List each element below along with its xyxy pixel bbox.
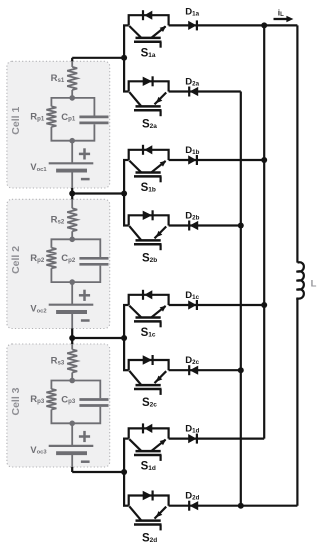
svg-text:D2c: D2c: [185, 355, 199, 366]
svg-text:D2d: D2d: [185, 491, 199, 502]
svg-text:D1d: D1d: [185, 424, 199, 435]
svg-text:S2a: S2a: [142, 118, 157, 130]
svg-text:D2a: D2a: [185, 77, 199, 88]
svg-text:S1b: S1b: [141, 182, 156, 194]
svg-text:iL: iL: [278, 7, 284, 18]
svg-text:S1d: S1d: [141, 461, 156, 473]
svg-text:D1a: D1a: [185, 7, 199, 18]
svg-text:S2c: S2c: [142, 397, 157, 409]
svg-text:Cell 3: Cell 3: [10, 387, 22, 415]
svg-text:D1c: D1c: [185, 290, 199, 301]
svg-text:S2d: S2d: [142, 533, 157, 545]
svg-text:Cell 1: Cell 1: [10, 107, 22, 135]
svg-text:S2b: S2b: [142, 252, 157, 264]
svg-text:S1a: S1a: [141, 47, 156, 59]
svg-text:S1c: S1c: [141, 327, 156, 339]
svg-text:Cell 2: Cell 2: [10, 246, 22, 274]
svg-text:L: L: [311, 279, 317, 290]
svg-text:D2b: D2b: [185, 211, 199, 222]
svg-text:D1b: D1b: [185, 145, 199, 156]
